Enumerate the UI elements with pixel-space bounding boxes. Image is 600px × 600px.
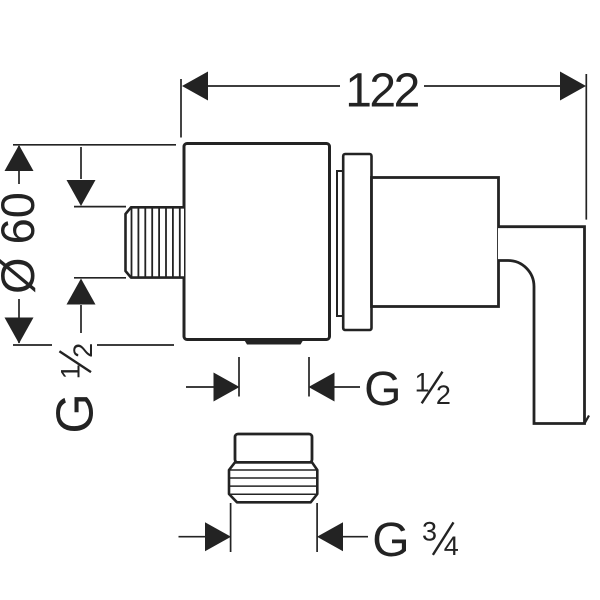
svg-text:4: 4 [444,531,459,561]
svg-text:122: 122 [345,64,418,117]
svg-text:3: 3 [422,517,437,547]
svg-text:2: 2 [436,380,451,410]
svg-text:Ø 60: Ø 60 [0,192,44,294]
svg-text:2: 2 [68,343,98,358]
svg-text:G: G [364,363,401,416]
svg-text:G: G [47,393,105,433]
svg-text:G: G [372,514,409,567]
